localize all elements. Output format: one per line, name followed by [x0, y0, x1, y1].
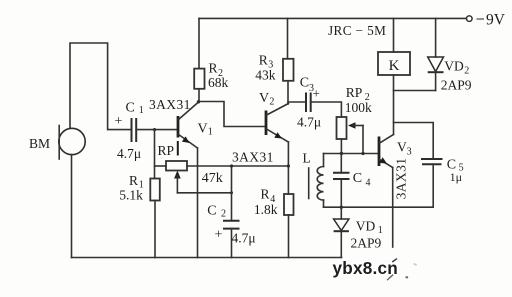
svg-text:R: R: [129, 173, 138, 188]
node: V1 collector: [197, 100, 200, 103]
svg-text:5.1k: 5.1k: [119, 187, 143, 202]
svg-text:R: R: [261, 187, 270, 202]
wire: K column to C5 top: [394, 123, 434, 160]
wire: BM top wire up-right-down to C1: [70, 43, 131, 130]
wire: K top to rail: [393, 18, 395, 52]
potentiometer RP2: [337, 117, 347, 139]
svg-text:+: +: [115, 114, 123, 129]
resistor R4: [284, 194, 294, 215]
svg-text:2: 2: [221, 209, 226, 220]
wire: C3 right to RP2 top: [311, 102, 342, 117]
svg-text:2: 2: [269, 97, 274, 108]
speck slash: [387, 275, 393, 281]
wire: collector node to C3: [288, 101, 306, 103]
wire: RP2 bottom to tank top: [340, 139, 342, 154]
svg-text:VD: VD: [444, 59, 464, 74]
wire: coupling step V1 collector to V2 base: [199, 102, 266, 127]
wire: BM bottom to ground rail: [71, 155, 73, 258]
svg-text:K: K: [389, 58, 400, 74]
svg-text:C: C: [207, 204, 216, 219]
svg-text:V: V: [397, 140, 407, 155]
potentiometer RP1: [166, 161, 187, 171]
accent mark over n: [392, 259, 397, 262]
node: wiper junction: [361, 152, 364, 155]
wire: V1 emitter down to ground: [197, 148, 199, 258]
wire: tank top rail to V3 base: [324, 153, 379, 155]
svg-text:C: C: [126, 101, 135, 116]
wire: V2 emitter down to R4: [287, 142, 289, 194]
RP1 wiper arrow: [174, 171, 181, 179]
wire: top supply rail: [199, 17, 467, 19]
svg-text:C: C: [300, 76, 309, 91]
wire: wiper to C2 top: [177, 192, 231, 194]
wire: R2 bottom to collector node: [198, 89, 200, 102]
wire: R1 bottom to rail: [154, 201, 156, 258]
svg-text:BM: BM: [29, 136, 50, 151]
svg-text:R: R: [209, 61, 218, 76]
svg-text:4.7μ: 4.7μ: [117, 146, 141, 161]
wire: R2 top to rail: [198, 18, 200, 68]
capacitor C5: [421, 158, 443, 160]
svg-text:1: 1: [208, 126, 213, 137]
transistor V2: [265, 111, 268, 136]
svg-text:3AX31: 3AX31: [232, 150, 274, 165]
svg-text:4.7μ: 4.7μ: [297, 115, 321, 130]
node: emitter rail junction: [287, 164, 290, 167]
svg-text:C: C: [353, 171, 362, 186]
svg-text:3: 3: [407, 147, 412, 158]
transistor V1: [177, 116, 180, 138]
faint speck: [413, 263, 417, 266]
svg-text:VD: VD: [356, 219, 376, 234]
relay K: [378, 52, 410, 75]
node: base/R1 junction: [153, 128, 156, 131]
transistor V3: [378, 137, 381, 167]
inductor L: [323, 154, 325, 167]
svg-text:4: 4: [366, 178, 371, 189]
wire: R3 top to rail: [287, 18, 289, 58]
svg-text:3AX31: 3AX31: [394, 158, 409, 200]
svg-text:9V: 9V: [486, 12, 506, 29]
terminal -9V: [467, 16, 473, 22]
resistor R2: [194, 69, 204, 89]
wire: tank bottom rail: [324, 206, 434, 208]
svg-text:4.7μ: 4.7μ: [232, 231, 256, 246]
capacitor C1: [131, 118, 133, 142]
svg-text:+: +: [215, 228, 223, 243]
svg-text:2: 2: [464, 66, 469, 77]
RP2 wiper arrow: [348, 122, 356, 128]
svg-text:68k: 68k: [208, 75, 229, 90]
capacitor C3: [305, 93, 307, 113]
svg-text:ybx8.cn: ybx8.cn: [333, 258, 398, 278]
svg-text:1.8k: 1.8k: [254, 202, 278, 217]
svg-text:2AP9: 2AP9: [441, 77, 472, 92]
svg-text:V: V: [259, 91, 269, 106]
wire: V3 emitter stub below rail: [392, 207, 394, 247]
resistor R1: [150, 179, 160, 201]
wire: RP1 right lead to V2 emitter column: [187, 165, 288, 167]
svg-text:3AX31: 3AX31: [149, 97, 191, 112]
svg-text:2AP9: 2AP9: [351, 235, 382, 250]
svg-text:V: V: [198, 121, 208, 136]
diode VD2: [435, 18, 437, 57]
capacitor C4: [340, 154, 342, 173]
node: RP2 bottom junction: [340, 152, 343, 155]
speck dot: [406, 276, 409, 278]
svg-text:RP: RP: [158, 143, 175, 158]
wire: R4 bottom to rail: [288, 215, 290, 258]
wire: R3 bottom to V2 collector: [287, 81, 289, 104]
capacitor C2: [231, 166, 233, 221]
wire: junction down to R1 and RP left: [154, 130, 156, 179]
svg-text:+: +: [313, 86, 320, 101]
microphone BM: [59, 128, 85, 154]
wire: V3 emitter to tank bottom rail: [392, 168, 394, 208]
svg-text:1: 1: [139, 105, 144, 116]
wire: V3 collector up to K: [393, 75, 395, 135]
wire: bottom ground rail: [72, 257, 342, 259]
svg-text:1μ: 1μ: [450, 170, 462, 184]
svg-text:100k: 100k: [345, 100, 372, 115]
svg-text:RP: RP: [346, 85, 363, 100]
node: C4/VD1 junction: [340, 206, 343, 209]
wire: VD2 bottom to K column: [394, 90, 436, 92]
svg-text:JRC − 5M: JRC − 5M: [328, 23, 386, 38]
resistor R3: [283, 59, 294, 81]
svg-text:1: 1: [378, 225, 383, 236]
wire: C1 to V1 base: [136, 129, 177, 131]
inductor core line: [308, 168, 310, 199]
svg-text:R: R: [259, 52, 268, 67]
svg-text:43k: 43k: [255, 67, 275, 82]
wire: RP1 left lead: [155, 165, 167, 167]
diode VD1: [340, 207, 342, 219]
svg-text:L: L: [303, 151, 311, 166]
svg-text:47k: 47k: [202, 171, 223, 186]
